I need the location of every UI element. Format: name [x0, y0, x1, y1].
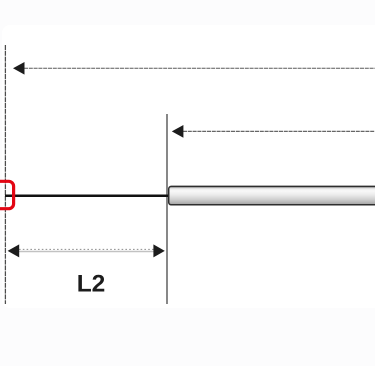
wire dim line second — [183, 130, 375, 132]
svg-text:L2: L2 — [77, 271, 106, 298]
wire dim line bottom L2 — [19, 248, 154, 250]
wire dim line bottom base — [19, 251, 154, 253]
arrowhead second dimension — [172, 125, 184, 138]
tube sheath — [169, 186, 375, 204]
red highlight connector — [0, 181, 14, 208]
wire dim line top — [24, 67, 375, 69]
arrowhead bottom left — [8, 244, 20, 257]
extension line right — [166, 114, 168, 304]
wire cable — [5, 194, 170, 197]
arrowhead bottom right — [153, 244, 164, 257]
arrowhead top dimension — [13, 62, 25, 75]
card background — [2, 25, 375, 308]
extension line left — [4, 45, 6, 304]
